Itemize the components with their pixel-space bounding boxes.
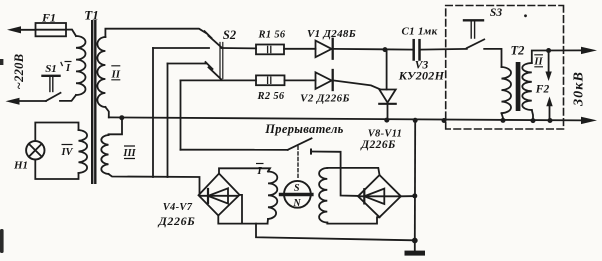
svg-text:Д226Б: Д226Б bbox=[158, 214, 196, 228]
main bottom bus wire bbox=[109, 117, 583, 120]
svg-text:S2: S2 bbox=[223, 28, 236, 42]
S2 contact C chevron bbox=[206, 62, 213, 69]
lamp H1 bbox=[26, 141, 44, 159]
wire lamp top to winding IV bbox=[35, 123, 78, 142]
wire S2 contact C bbox=[168, 63, 207, 65]
wire T2 primary bottom to bus bbox=[502, 113, 504, 120]
thyristor V3 bbox=[386, 50, 388, 90]
svg-text:F2: F2 bbox=[535, 84, 550, 96]
svg-text:S1: S1 bbox=[45, 63, 57, 75]
spark gap F2 bottom arrow bbox=[549, 105, 551, 120]
capacitor C1 bbox=[412, 40, 415, 59]
svg-text:30кВ: 30кВ bbox=[572, 71, 587, 107]
wire interrupter feed bbox=[181, 149, 288, 151]
svg-text:V8-V11: V8-V11 bbox=[368, 129, 402, 140]
svg-text:S3: S3 bbox=[490, 7, 502, 19]
resistor R1 bbox=[256, 45, 284, 55]
node F2 top bbox=[546, 48, 551, 53]
switch S1 bbox=[46, 93, 61, 101]
S2 arm pole 1 bbox=[209, 36, 222, 48]
node ground junction bbox=[412, 238, 418, 244]
wire R1 to V1 bbox=[284, 48, 316, 50]
svg-text:II: II bbox=[533, 57, 543, 68]
interrupter arm bbox=[288, 138, 312, 150]
wire S2 pole2 output to R2 bbox=[181, 79, 257, 81]
interrupter fixed contact bbox=[310, 150, 312, 154]
node F2 bottom bbox=[548, 118, 553, 123]
dashed enclosure box bbox=[446, 6, 564, 130]
svg-text:II: II bbox=[111, 69, 121, 81]
wire S2 contact B bbox=[153, 47, 209, 49]
svg-text:I: I bbox=[256, 165, 262, 177]
tiny mark right of S3 bbox=[524, 14, 527, 17]
tiny mark between S1 and I label bbox=[61, 63, 62, 66]
bridge V4-V7 diamond bbox=[199, 174, 240, 216]
output arrow top 30kV bbox=[581, 47, 597, 54]
transformer T1 winding II bbox=[97, 37, 105, 107]
wire coil right bottom to bridge2 bottom bbox=[327, 217, 379, 223]
vertical feed S2 contact B bbox=[152, 48, 154, 177]
node box edge on bus bbox=[442, 118, 447, 123]
coil I (left magneto winding) bbox=[268, 172, 277, 220]
ground column vertical bbox=[414, 120, 416, 240]
transformer T2 secondary bbox=[522, 63, 532, 110]
mains arrow top-left bbox=[7, 26, 21, 33]
fuse F1 bbox=[36, 23, 67, 36]
svg-text:N: N bbox=[292, 198, 301, 209]
switch S3 bbox=[467, 39, 484, 48]
wire T2 secondary bottom to bus bbox=[532, 110, 533, 121]
spark gap F2 top arrow bbox=[548, 51, 550, 74]
svg-text:R1 56: R1 56 bbox=[258, 30, 286, 41]
wire T2 secondary top to output bbox=[532, 50, 585, 63]
svg-text:V2 Д226Б: V2 Д226Б bbox=[300, 93, 350, 105]
node thyristor cathode on bus bbox=[384, 118, 389, 123]
node before C1 bbox=[383, 47, 388, 52]
coil right (magneto winding 2) bbox=[319, 168, 327, 223]
mains arrow bottom-left bbox=[6, 98, 20, 105]
transformer T2 primary bbox=[502, 67, 512, 113]
wire bridge1 right vertex down bbox=[240, 195, 243, 224]
svg-text:T2: T2 bbox=[511, 44, 525, 58]
node T2 primary bottom bbox=[501, 118, 506, 123]
transformer T1 winding I bbox=[76, 36, 86, 95]
svg-text:Н1: Н1 bbox=[13, 160, 28, 172]
bridge V4-V7 diode bbox=[201, 195, 238, 197]
svg-text:T1: T1 bbox=[84, 8, 98, 23]
wire lamp bottom to winding IV bbox=[35, 160, 78, 180]
node T2 secondary bottom bbox=[531, 118, 536, 123]
svg-text:Д226Б: Д226Б bbox=[360, 139, 395, 151]
wire S1 to winding I bottom bbox=[60, 95, 76, 101]
transformer T1 winding III bbox=[101, 135, 108, 174]
transformer T2 core bbox=[516, 62, 521, 111]
wire S3 to T2 primary bbox=[484, 49, 501, 67]
dashed mechanical link to magnet bbox=[297, 146, 299, 179]
S2 arm pole 2 bbox=[209, 67, 222, 80]
transformer T1 core bbox=[91, 20, 93, 184]
diode V1 bbox=[316, 41, 332, 58]
magnet rotor S/N bbox=[284, 181, 311, 208]
svg-text:S: S bbox=[294, 183, 300, 194]
wire bridge1 top to coil I top bbox=[219, 168, 270, 173]
wire to switch S1 bbox=[18, 100, 46, 102]
wire node down to winding III top bbox=[109, 118, 123, 135]
svg-text:Прерыватель: Прерыватель bbox=[264, 122, 343, 136]
svg-text:R2 56: R2 56 bbox=[257, 91, 285, 102]
wire C1 to box / S3 bbox=[421, 48, 467, 51]
bridge V8-V11 diode bbox=[360, 195, 399, 197]
S2 mechanical link bbox=[220, 43, 223, 79]
wire R2 to V2 bbox=[285, 79, 316, 81]
wire mains to fuse bbox=[19, 29, 36, 31]
transformer T1 winding IV bbox=[79, 130, 88, 173]
wire interrupter to right coil circuit bbox=[311, 152, 358, 196]
wire bridge1 bottom to coil I bottom bbox=[218, 216, 267, 224]
ground return wire bbox=[256, 224, 414, 241]
resistor R2 bbox=[256, 75, 285, 85]
wire winding II bottom to node bbox=[105, 107, 108, 117]
scan smudge left edge bbox=[0, 229, 4, 253]
node ground column on bus bbox=[413, 118, 418, 123]
node bridge2 output bbox=[412, 193, 417, 198]
wire S2 pole1 output to R1 bbox=[222, 47, 257, 49]
diode V2 bbox=[316, 72, 332, 89]
svg-text:F1: F1 bbox=[41, 11, 56, 25]
vertical feed S2 contact C bbox=[167, 64, 169, 178]
wire coil right top to bridge2 top bbox=[327, 168, 379, 175]
wire winding II top to S2 contact A bbox=[105, 29, 206, 37]
S2 contact A chevron bbox=[205, 31, 212, 38]
wire fuse to T1 winding I bbox=[66, 30, 76, 37]
vertical feed interrupter from S2 pole2 bbox=[180, 80, 182, 149]
ground symbol bbox=[414, 241, 416, 251]
svg-text:~220В: ~220В bbox=[12, 54, 26, 90]
svg-text:V1 Д248Б: V1 Д248Б bbox=[307, 28, 356, 40]
wire V2 to thyristor gate bbox=[334, 81, 380, 90]
svg-text:C1 1мк: C1 1мк bbox=[402, 26, 438, 38]
svg-text:V4-V7: V4-V7 bbox=[163, 202, 193, 213]
wire winding III bottom to bridge V4-V7 bbox=[109, 174, 200, 195]
output arrow bottom bbox=[583, 119, 585, 121]
svg-text:IV: IV bbox=[60, 147, 73, 158]
svg-text:III: III bbox=[122, 148, 136, 159]
wire bridge2 right vertex to ground column bbox=[401, 195, 415, 197]
bridge V8-V11 diamond bbox=[358, 175, 401, 217]
svg-text:КУ202Н: КУ202Н bbox=[398, 69, 445, 83]
node T1 junction bbox=[119, 115, 124, 120]
wire V1 to node bbox=[334, 48, 413, 51]
wire coil I bottom bbox=[267, 219, 270, 224]
